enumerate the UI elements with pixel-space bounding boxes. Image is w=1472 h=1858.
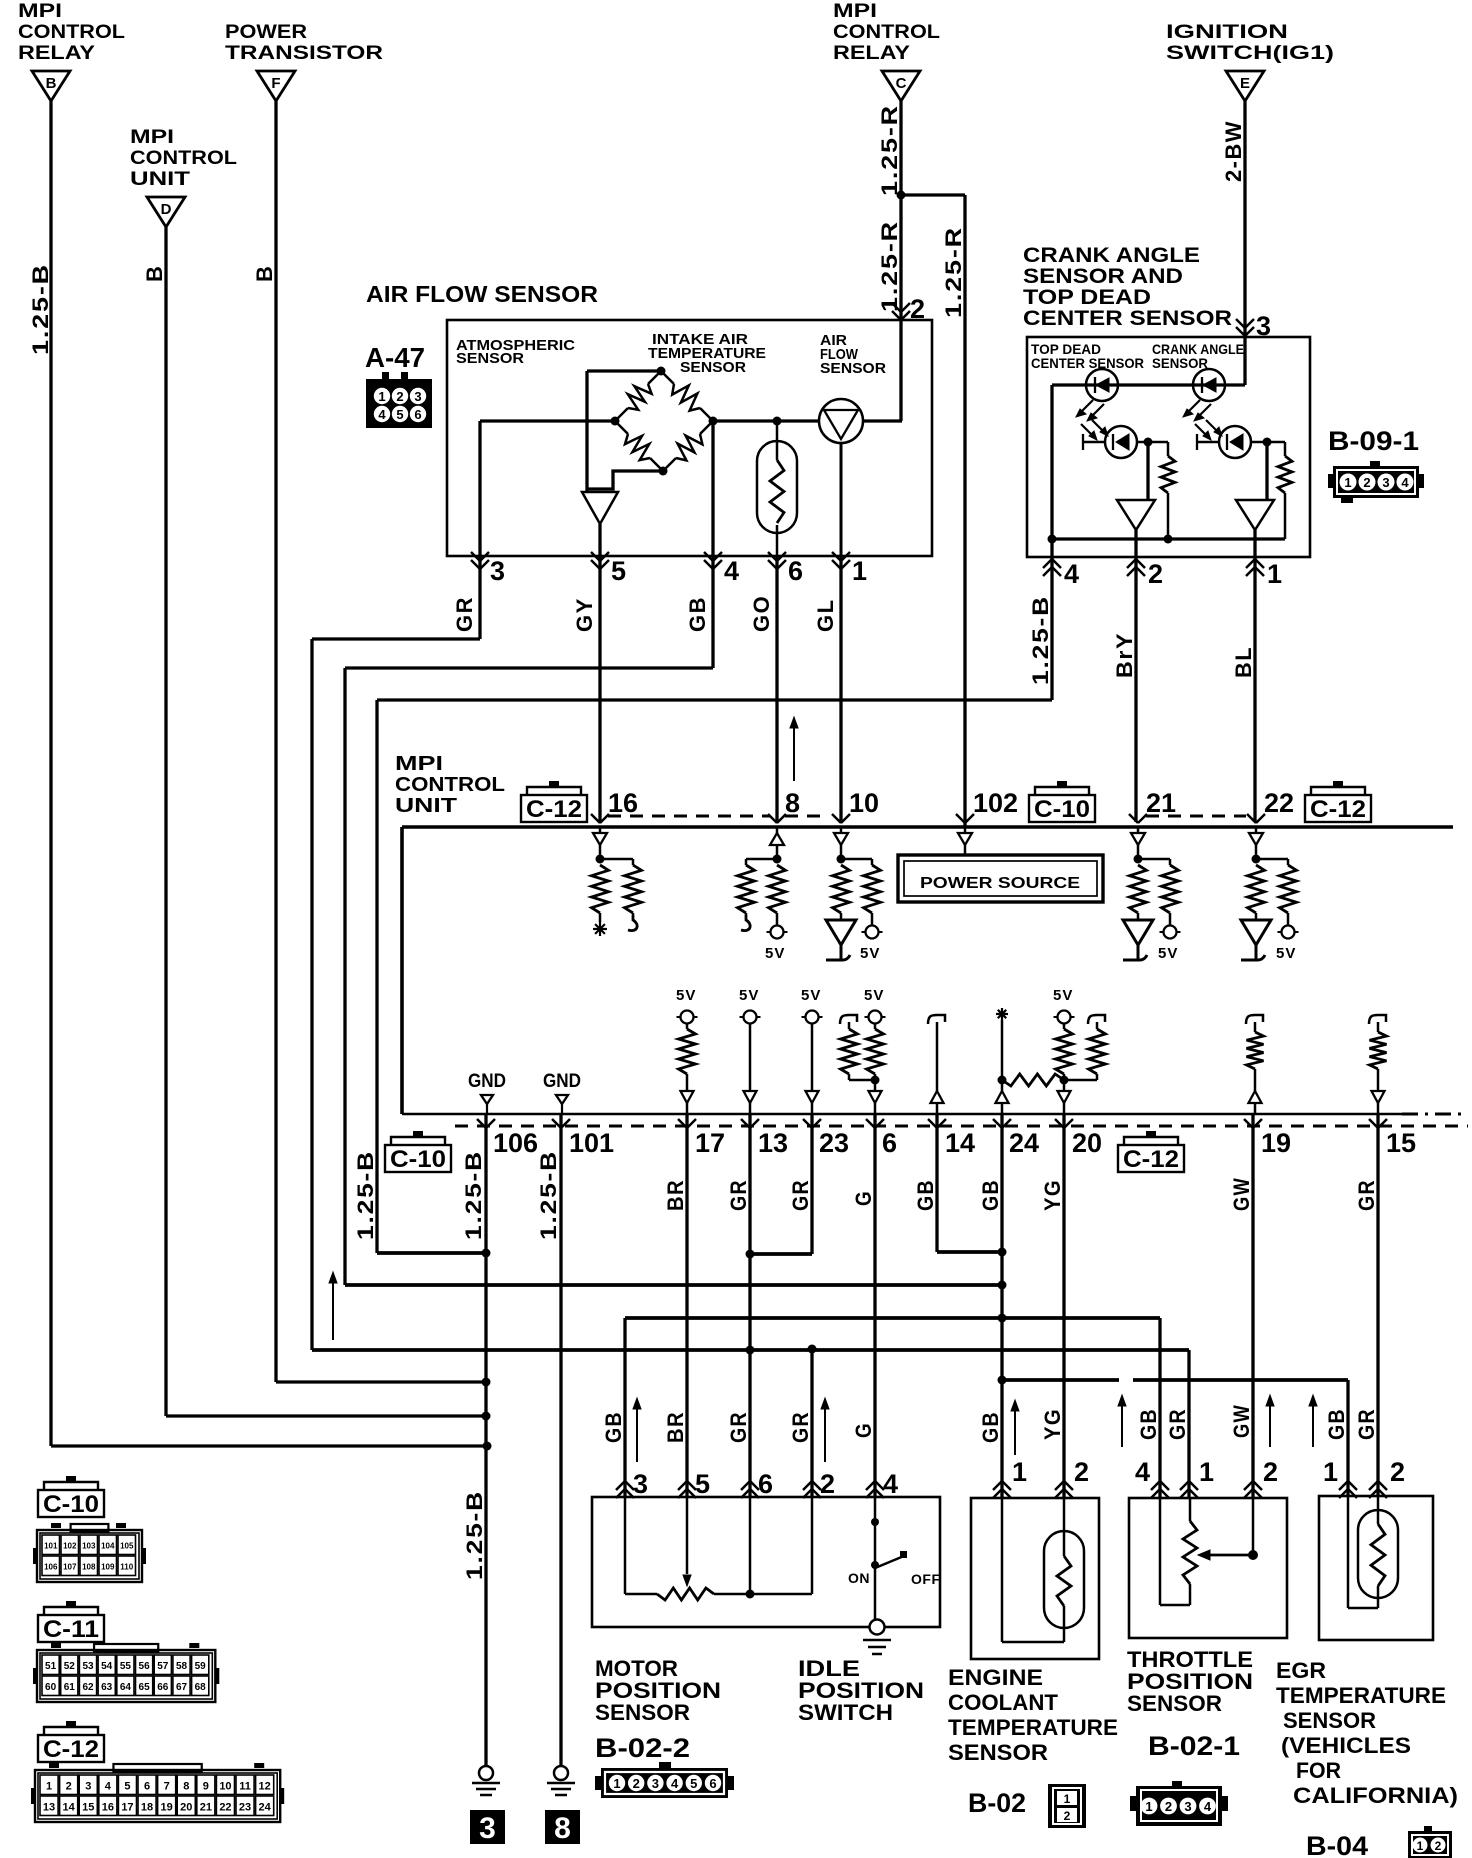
pin network with ground and 5V at x=841: [833, 827, 881, 926]
ECT pin 2 chevrons: [1055, 1481, 1064, 1490]
wire 1.25-R from relay C to air flow sensor pin 2: [899, 101, 902, 320]
svg-text:2: 2: [1263, 1457, 1278, 1487]
svg-text:1.25-B: 1.25-B: [461, 1150, 486, 1240]
svg-text:CENTER SENSOR: CENTER SENSOR: [1031, 355, 1144, 371]
svg-text:POWER: POWER: [225, 22, 307, 43]
5V source x=1288: [1282, 926, 1295, 939]
svg-text:24: 24: [259, 1801, 272, 1813]
MOTOR POSITION SENSOR label: [595, 1656, 721, 1725]
svg-text:BL: BL: [1231, 646, 1256, 678]
motor position sensor / idle position switch box: [592, 1497, 940, 1627]
svg-text:C-12: C-12: [526, 796, 582, 823]
svg-text:6: 6: [788, 556, 803, 586]
svg-text:D: D: [161, 201, 172, 218]
wire GY from AFS pin5 to MPI pin16: [598, 556, 601, 822]
wire 1.25-B (pin 101) to chassis ground: [559, 1114, 562, 1766]
pin network with ground and 5V at x=1256: [1248, 827, 1297, 926]
label AIR FLOW SENSOR (internal): [820, 332, 886, 377]
svg-text:109: 109: [101, 1562, 115, 1571]
MPI CONTROL UNIT label: [395, 753, 505, 817]
svg-text:52: 52: [64, 1661, 76, 1672]
wire 1.25-R branch to MPI pin 102: [901, 195, 965, 827]
svg-text:GND: GND: [468, 1071, 506, 1092]
svg-text:C: C: [896, 75, 907, 92]
CAS pin 4 wire: [1050, 539, 1053, 557]
pin 13 network: 5V direct: [739, 987, 761, 1114]
idle position switch: [848, 1497, 941, 1620]
direction arrow (TPS pin4 GB): [1121, 1401, 1123, 1447]
svg-text:5: 5: [690, 1776, 697, 1791]
svg-text:1: 1: [1145, 1799, 1152, 1814]
direction arrow (TPS pin2 GW): [1269, 1401, 1271, 1447]
svg-text:CRANK ANGLE: CRANK ANGLE: [1023, 244, 1200, 267]
CAS bus junction left: [1048, 535, 1057, 544]
svg-text:57: 57: [157, 1661, 169, 1672]
svg-text:6: 6: [882, 1128, 897, 1158]
junction: wire D joins bus: [482, 1412, 491, 1421]
svg-text:C-10: C-10: [43, 1491, 99, 1518]
air flow sensor box: [447, 320, 932, 556]
CRANK ANGLE SENSOR AND TOP DEAD CENTER SENSOR title: [1023, 244, 1232, 330]
GND arrow (pin 106): [481, 1095, 493, 1114]
MS pin 6 chevrons: [741, 1481, 750, 1490]
svg-text:15: 15: [82, 1801, 94, 1813]
svg-text:102: 102: [63, 1541, 77, 1550]
svg-text:GB: GB: [978, 1411, 1003, 1443]
junction: 1.25-B from CAS joins bus: [482, 1249, 491, 1258]
crank angle sensor box: [1027, 337, 1310, 557]
svg-text:2: 2: [633, 1776, 640, 1791]
junction pin14/pin24 GB: [998, 1248, 1007, 1257]
TPS pin 2 chevrons: [1244, 1481, 1253, 1490]
svg-text:COOLANT: COOLANT: [948, 1690, 1059, 1715]
svg-text:20: 20: [180, 1801, 192, 1813]
ECT pin 1 chevrons: [993, 1481, 1002, 1490]
svg-text:ON: ON: [848, 1570, 870, 1586]
svg-text:60: 60: [45, 1682, 57, 1693]
svg-text:ENGINE: ENGINE: [948, 1665, 1043, 1690]
svg-text:BR: BR: [663, 1179, 688, 1211]
connector C-10 icon (pin 106): [413, 1131, 423, 1137]
svg-text:MPI: MPI: [395, 753, 443, 775]
IDLE POSITION SWITCH label: [798, 1656, 924, 1725]
svg-text:CALIFORNIA): CALIFORNIA): [1293, 1783, 1458, 1808]
air flow sensor symbol (circle with triangle): [819, 399, 863, 556]
connector C-10 pin diagram: [71, 1524, 109, 1532]
TPS wiper junction dot: [1248, 1550, 1258, 1560]
svg-text:1.25-R: 1.25-R: [877, 220, 902, 312]
svg-text:3: 3: [1184, 1799, 1191, 1814]
svg-text:GO: GO: [749, 595, 774, 632]
svg-text:1: 1: [1267, 559, 1282, 589]
crank load resistor: [1267, 442, 1292, 539]
svg-text:67: 67: [176, 1682, 188, 1693]
svg-text:SWITCH: SWITCH: [798, 1700, 893, 1725]
pin 6 junction dot: [871, 1076, 880, 1085]
GND arrow (pin 101): [556, 1095, 568, 1114]
EGR pin 1 chevrons: [1339, 1481, 1348, 1490]
GR bus horizontal to TPS pin1: [312, 1350, 1189, 1499]
svg-text:B-02: B-02: [968, 1788, 1026, 1818]
svg-text:68: 68: [195, 1682, 207, 1693]
wire B from unit D to ground bus: [166, 227, 486, 1416]
CAS internal wire from pin 3: [1052, 337, 1245, 385]
svg-text:4: 4: [883, 1469, 898, 1499]
pin 17 network: 5V through resistor: [676, 987, 698, 1114]
svg-text:3: 3: [490, 556, 505, 586]
svg-text:TEMPERATURE: TEMPERATURE: [948, 1715, 1118, 1740]
CAS left internal wire to bus: [1050, 385, 1053, 539]
svg-text:1.25-B: 1.25-B: [28, 263, 53, 355]
svg-text:GB: GB: [601, 1411, 626, 1443]
svg-text:1: 1: [1323, 1457, 1338, 1487]
pin 15 network: resistor: [1369, 1015, 1387, 1114]
svg-text:16: 16: [608, 788, 638, 818]
svg-text:13: 13: [758, 1128, 788, 1158]
svg-text:2-BW: 2-BW: [1221, 120, 1246, 182]
connector A-47 icon: [366, 372, 432, 428]
svg-text:5V: 5V: [739, 987, 759, 1004]
svg-text:B-02-2: B-02-2: [595, 1733, 690, 1763]
svg-text:58: 58: [176, 1661, 188, 1672]
svg-text:B-02-1: B-02-1: [1148, 1731, 1240, 1761]
svg-text:2: 2: [820, 1469, 835, 1499]
label CRANK ANGLE SENSOR (internal): [1152, 341, 1244, 371]
svg-text:1: 1: [1417, 1839, 1424, 1853]
connector C-10 label icon: [66, 1476, 76, 1482]
svg-text:54: 54: [101, 1661, 113, 1672]
svg-text:1.25-B: 1.25-B: [462, 1490, 487, 1580]
MPI pin 8 chevron: [768, 814, 777, 823]
svg-text:BR: BR: [663, 1411, 688, 1443]
star symbol (pin 16): [593, 928, 607, 930]
svg-text:BrY: BrY: [1112, 632, 1137, 678]
direction arrow (GO wire): [793, 723, 795, 781]
terminal B: MPI CONTROL RELAY: [18, 1, 125, 101]
AFS wire to pin 3: [478, 421, 481, 556]
svg-text:110: 110: [120, 1562, 133, 1571]
crank angle sensor LED: [1183, 369, 1225, 421]
wire GR pin13 to motor position sensor pin6: [748, 1114, 751, 1498]
connector C-11 pin diagram: [94, 1644, 158, 1652]
pin 23 network: 5V direct: [801, 987, 823, 1114]
AFS pin 3 chevrons: [471, 552, 480, 561]
svg-text:107: 107: [63, 1562, 77, 1571]
svg-text:1: 1: [1199, 1457, 1214, 1487]
svg-text:8: 8: [554, 1812, 571, 1845]
svg-text:15: 15: [1386, 1128, 1416, 1158]
connector B-04 icon: [1408, 1826, 1452, 1858]
svg-text:56: 56: [139, 1661, 151, 1672]
svg-text:5V: 5V: [1276, 945, 1296, 962]
svg-text:2: 2: [1165, 1799, 1172, 1814]
svg-text:3: 3: [414, 389, 421, 404]
svg-text:2: 2: [1390, 1457, 1405, 1487]
svg-text:SENSOR: SENSOR: [456, 350, 524, 367]
svg-text:E: E: [1240, 75, 1250, 92]
junction: wire F joins bus: [482, 1378, 491, 1387]
svg-text:5V: 5V: [864, 987, 884, 1004]
MPI pin 15 chevron: [1369, 1119, 1378, 1128]
svg-text:B-09-1: B-09-1: [1328, 426, 1419, 456]
wire G pin6 to idle position switch pin4: [873, 1114, 876, 1498]
svg-text:16: 16: [102, 1801, 114, 1813]
crank phototransistor output junction: [1263, 438, 1272, 447]
wire BR pin17 to motor position sensor pin5: [685, 1114, 688, 1498]
svg-text:20: 20: [1072, 1128, 1102, 1158]
svg-text:RELAY: RELAY: [18, 43, 95, 64]
svg-text:C-11: C-11: [43, 1616, 99, 1643]
pin 24 network: star with series resistor: [996, 1008, 1009, 1114]
svg-text:CONTROL: CONTROL: [395, 774, 505, 796]
svg-text:GR: GR: [726, 1179, 751, 1211]
MPI pin 10 chevron: [832, 814, 841, 823]
svg-text:1: 1: [378, 389, 385, 404]
svg-text:18: 18: [141, 1801, 153, 1813]
wire 2-BW from ignition switch to crank angle sensor pin 3: [1243, 101, 1246, 337]
ground reference box 8: [545, 1810, 580, 1845]
MPI pin 19 chevron: [1244, 1119, 1253, 1128]
MPI pin 106 chevron: [477, 1119, 486, 1128]
svg-text:17: 17: [695, 1128, 725, 1158]
svg-text:OFF: OFF: [911, 1571, 941, 1587]
svg-text:61: 61: [64, 1682, 76, 1693]
svg-text:19: 19: [1261, 1128, 1291, 1158]
wire GW pin19 to TPS pin2: [1251, 1114, 1254, 1499]
svg-text:SENSOR: SENSOR: [595, 1700, 690, 1725]
svg-text:17: 17: [121, 1801, 133, 1813]
svg-text:YG: YG: [1040, 1408, 1065, 1440]
svg-text:3: 3: [652, 1776, 659, 1791]
curl hook (pin 16): [628, 915, 637, 931]
svg-text:5V: 5V: [1053, 987, 1073, 1004]
svg-text:SENSOR: SENSOR: [948, 1740, 1048, 1765]
direction arrow (MS pin2 GR): [824, 1404, 826, 1462]
atmospheric sensor amplifier triangle: [582, 492, 618, 524]
junction dot x=1138: [1134, 855, 1143, 864]
svg-text:2: 2: [66, 1780, 72, 1792]
svg-text:UNIT: UNIT: [130, 169, 191, 190]
ECT thermistor: [1002, 1497, 1084, 1642]
svg-text:5V: 5V: [765, 945, 785, 962]
svg-text:22: 22: [219, 1801, 231, 1813]
svg-text:CENTER SENSOR: CENTER SENSOR: [1023, 307, 1232, 330]
pin 20 network: 5V resistor with parallel hooked resistor: [1053, 987, 1106, 1114]
svg-text:MPI: MPI: [130, 127, 174, 148]
svg-text:TOP DEAD: TOP DEAD: [1023, 286, 1151, 309]
junction GB branch: [998, 1314, 1007, 1323]
connector C-10 icon (pin 102): [1057, 781, 1067, 787]
svg-text:62: 62: [82, 1682, 94, 1693]
bridge node right junction: [709, 417, 718, 426]
MS pin 5 chevrons: [678, 1481, 687, 1490]
svg-text:GB: GB: [685, 596, 710, 632]
svg-text:B-04: B-04: [1306, 1831, 1368, 1858]
wire GR from AFS pin3 to GR bus: [312, 556, 480, 1350]
MPI pin 102 chevron: [956, 814, 965, 823]
svg-text:B: B: [252, 265, 277, 282]
TPS potentiometer: [1160, 1497, 1253, 1605]
terminal D: MPI CONTROL UNIT: [130, 127, 237, 227]
IPS switch contact dot: [871, 1561, 879, 1569]
junction GR bus at pin13 wire: [746, 1346, 755, 1355]
atmospheric sensor bottom-node wire: [587, 471, 663, 489]
svg-text:103: 103: [82, 1541, 96, 1550]
atmospheric sensor top-node wire: [587, 371, 661, 492]
pin 24 junction dot: [998, 1076, 1007, 1085]
svg-text:C-12: C-12: [43, 1736, 99, 1763]
svg-text:4: 4: [1401, 475, 1409, 490]
MPI pin 101 chevron: [552, 1119, 561, 1128]
svg-text:21: 21: [1146, 788, 1176, 818]
svg-text:6: 6: [144, 1780, 150, 1792]
svg-text:1: 1: [852, 556, 867, 586]
wire GB pin14 joins pin24 wire: [937, 1114, 1002, 1252]
chassis ground symbol (pin 106): [472, 1766, 500, 1795]
terminal F: POWER TRANSISTOR: [225, 22, 383, 101]
TDC phototransistor output junction: [1144, 438, 1153, 447]
svg-text:RELAY: RELAY: [833, 43, 910, 64]
resistor between pin24 and pin20 nodes: [1002, 1074, 1064, 1086]
5V source x=1170: [1164, 926, 1177, 939]
AFS pin 4 chevrons: [704, 552, 713, 561]
svg-text:C-10: C-10: [1034, 796, 1090, 823]
ground triangle x=841: [826, 920, 856, 945]
junction: wire B joins bus: [483, 1442, 492, 1451]
svg-text:C-12: C-12: [1310, 796, 1366, 823]
svg-text:64: 64: [120, 1682, 132, 1693]
MPI pin 16 chevron: [591, 814, 600, 823]
wire 1.25-B from CAS pin4 to ground bus: [377, 557, 1052, 1253]
svg-text:CONTROL: CONTROL: [833, 22, 940, 43]
POWER SOURCE block: [898, 827, 1103, 902]
GB branch horizontal to MS pin3 and TPS pin4: [625, 1318, 1160, 1499]
AFS wire to pin 4: [711, 421, 714, 556]
THROTTLE POSITION SENSOR label: [1127, 1647, 1253, 1716]
svg-text:EGR: EGR: [1276, 1658, 1326, 1683]
svg-text:22: 22: [1264, 788, 1294, 818]
intake air temperature sensor resistor oval: [757, 421, 797, 556]
connector C-12 icon (pin 22): [1333, 781, 1343, 787]
GB bus junction at y1285: [998, 1281, 1007, 1290]
svg-text:GB: GB: [1324, 1408, 1349, 1440]
pin 20 junction dot: [1060, 1076, 1069, 1085]
curl hook (pin 8): [741, 915, 750, 931]
svg-text:1.25-B: 1.25-B: [536, 1150, 561, 1240]
label INTAKE AIR TEMPERATURE SENSOR: [648, 331, 766, 376]
svg-text:1.25-R: 1.25-R: [941, 226, 966, 318]
MPI pin 20 chevron: [1055, 1119, 1064, 1128]
junction dot x=841: [837, 855, 846, 864]
svg-text:IGNITION: IGNITION: [1166, 22, 1288, 43]
top dead center sensor LED: [1076, 369, 1118, 421]
ground bus wire 1.25-B (pin 106) to chassis ground: [484, 1114, 487, 1766]
5V source x=872: [866, 926, 879, 939]
svg-text:14: 14: [63, 1801, 76, 1813]
pin 14 network: plain line: [928, 1015, 945, 1114]
IPS pin 4 chevrons: [866, 1481, 875, 1490]
svg-text:F: F: [271, 75, 280, 92]
svg-text:105: 105: [120, 1541, 134, 1550]
svg-text:MPI: MPI: [833, 1, 877, 22]
top dead center phototransistor: [1081, 420, 1148, 458]
wire GL from AFS pin1 to MPI pin10: [839, 556, 842, 822]
svg-text:CONTROL: CONTROL: [18, 22, 125, 43]
svg-text:1: 1: [1344, 475, 1351, 490]
svg-text:GY: GY: [572, 597, 597, 632]
svg-text:3: 3: [1256, 311, 1271, 341]
svg-text:2: 2: [1363, 475, 1370, 490]
svg-text:2: 2: [1148, 559, 1163, 589]
svg-text:FOR: FOR: [1296, 1758, 1341, 1783]
bridge node bottom junction: [659, 467, 668, 476]
direction arrow (GB bus turn): [332, 1278, 334, 1340]
svg-text:GW: GW: [1229, 1177, 1254, 1211]
svg-text:G: G: [851, 1190, 876, 1206]
svg-text:AIR FLOW SENSOR: AIR FLOW SENSOR: [366, 281, 598, 307]
bridge node left junction: [611, 417, 620, 426]
junction pin23/pin13 GR: [746, 1250, 755, 1259]
junction GB to EGR: [998, 1376, 1007, 1385]
wire 1.25-B from relay B to ground bus: [51, 101, 487, 1446]
svg-text:GR: GR: [726, 1411, 751, 1443]
svg-text:10: 10: [219, 1780, 231, 1792]
MPI pin 22 chevron: [1247, 814, 1256, 823]
terminal C: MPI CONTROL RELAY: [833, 1, 940, 101]
CAS bus junction at TDC resistor: [1164, 535, 1173, 544]
svg-text:5: 5: [124, 1780, 130, 1792]
crank amplifier: [1236, 442, 1274, 557]
svg-text:4: 4: [378, 407, 386, 422]
svg-text:24: 24: [1009, 1128, 1039, 1158]
wire GB pin24 to engine coolant temp sensor pin1: [1000, 1114, 1003, 1499]
connector C-12 label icon: [66, 1721, 76, 1727]
wire BrY from CAS pin2 to MPI pin21: [1134, 557, 1137, 822]
label ATMOSPHERIC SENSOR: [456, 337, 575, 367]
MS wiper junction dot: [746, 1590, 755, 1599]
svg-text:11: 11: [239, 1780, 251, 1792]
EGR TEMPERATURE SENSOR label: [1276, 1658, 1458, 1808]
svg-text:SENSOR AND: SENSOR AND: [1023, 265, 1183, 288]
svg-text:2: 2: [1074, 1457, 1089, 1487]
direction arrow (MS pin3 GB): [636, 1404, 638, 1462]
svg-text:101: 101: [44, 1541, 58, 1550]
MPI pin 24 chevron: [993, 1119, 1002, 1128]
chassis ground symbol (pin 101): [547, 1766, 575, 1795]
svg-text:8: 8: [183, 1780, 189, 1792]
IPS ground symbol on box edge: [863, 1620, 891, 1655]
svg-text:SENSOR: SENSOR: [1152, 355, 1208, 371]
svg-text:66: 66: [157, 1682, 169, 1693]
svg-text:108: 108: [82, 1562, 96, 1571]
svg-text:GR: GR: [788, 1411, 813, 1443]
svg-text:1.25-R: 1.25-R: [877, 104, 902, 196]
EGR temperature sensor box: [1319, 1496, 1433, 1640]
pin 6 network: 5V resistor with parallel hooked resistor: [840, 987, 886, 1114]
svg-text:6: 6: [758, 1469, 773, 1499]
svg-text:3: 3: [479, 1812, 496, 1845]
svg-text:YG: YG: [1040, 1179, 1065, 1211]
svg-text:1.25-B: 1.25-B: [1028, 595, 1053, 685]
motor position sensor potentiometer: [625, 1497, 812, 1600]
svg-text:1: 1: [1064, 1792, 1071, 1806]
throttle position sensor box: [1129, 1498, 1287, 1638]
svg-text:GND: GND: [543, 1071, 581, 1092]
svg-text:TRANSISTOR: TRANSISTOR: [225, 43, 383, 64]
pin 8 input network (pull resistors to 5V): [738, 827, 786, 926]
svg-text:9: 9: [203, 1780, 209, 1792]
svg-text:106: 106: [44, 1562, 58, 1571]
